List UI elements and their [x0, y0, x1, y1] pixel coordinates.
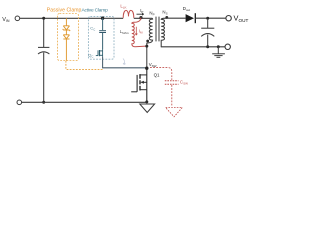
- passive clamp box: [58, 14, 79, 61]
- resonant current arrow: [123, 59, 126, 65]
- node junction Vin-Cin: [42, 17, 45, 20]
- node junction Cout top: [206, 17, 209, 20]
- wire clamp vertical: [102, 18, 104, 30]
- ground Csw (dashed red): [166, 108, 183, 117]
- transformer primary winding: [147, 18, 153, 43]
- transformer core: [156, 17, 159, 42]
- transistor Q1: [131, 68, 147, 102]
- active clamp box: [88, 16, 114, 59]
- node junction rail-clamp: [101, 17, 104, 20]
- inductor Lmag (red branch): [132, 18, 146, 47]
- capacitor Cout: [201, 20, 214, 47]
- arrow Q1 body: [140, 81, 144, 84]
- capacitor Cin: [38, 18, 49, 102]
- wire bottom rail: [22, 101, 147, 103]
- wire passive clamp lead: [65, 18, 67, 60]
- arrow Ip: [137, 13, 144, 15]
- node junction Lm top: [139, 16, 142, 19]
- wire diode to Vout: [195, 17, 226, 19]
- node junction Cin-bottom: [42, 101, 45, 104]
- node junction ground sec: [217, 45, 220, 48]
- svg-text:Active Clamp: Active Clamp: [82, 8, 109, 14]
- svg-text:Q1: Q1: [154, 72, 160, 77]
- ground primary: [140, 104, 155, 113]
- diode Db: [63, 35, 69, 39]
- ground secondary (earth): [212, 47, 225, 58]
- wire clamp to switch node: [103, 57, 146, 68]
- inductor Llk: [123, 10, 134, 17]
- node Vsw junction: [145, 67, 148, 70]
- capacitor Cc: [99, 31, 106, 33]
- polarity dot secondary: [165, 16, 168, 19]
- wire top rail right of Llk: [134, 17, 153, 19]
- terminal Vout return: [225, 44, 230, 49]
- transistor Qc: [96, 49, 103, 56]
- terminal Vin-return: [17, 100, 22, 105]
- capacitor Csw (parasitic, dashed red): [150, 68, 172, 107]
- svg-text:Passive Clamp: Passive Clamp: [47, 7, 82, 13]
- wire secondary to diode: [167, 17, 186, 19]
- wire primary bottom to switch node: [146, 43, 148, 69]
- zener diode Dz: [63, 26, 71, 31]
- node junction Cout bottom: [206, 45, 209, 48]
- wire passive clamp to switch node (dashed): [66, 61, 103, 70]
- wire secondary return: [161, 46, 225, 48]
- node junction Lm bottom: [145, 45, 148, 48]
- wire top rail: [20, 17, 123, 19]
- terminal Vout: [226, 16, 231, 21]
- transformer secondary winding: [161, 18, 166, 47]
- arrow Im: [135, 27, 137, 35]
- wire Cc to Qc: [102, 33, 104, 50]
- node junction source-rail: [145, 100, 148, 103]
- polarity dot primary: [146, 40, 149, 43]
- terminal VIN: [15, 16, 20, 21]
- diode Dout: [186, 14, 194, 22]
